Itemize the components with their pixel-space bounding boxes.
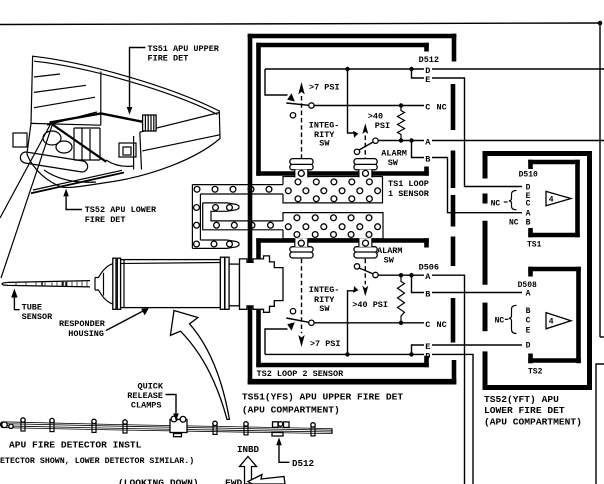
svg-text:TS1 LOOP: TS1 LOOP (388, 179, 429, 189)
responder grill (143, 115, 157, 131)
TS1 box (528, 160, 580, 165)
wire C line loop1 (314, 105, 424, 107)
svg-text:INTEG-: INTEG- (309, 120, 340, 130)
holes band C (214, 222, 220, 228)
responder neck (229, 264, 239, 306)
svg-text:D: D (526, 342, 531, 351)
pressure arrow 40psi loop1 (362, 123, 368, 134)
svg-text:NC: NC (509, 218, 519, 227)
upper fire det element bold line (50, 114, 143, 123)
svg-text:ALARM: ALARM (377, 246, 403, 256)
svg-text:HOUSING: HOUSING (68, 329, 104, 339)
svg-text:SENSOR: SENSOR (22, 312, 54, 322)
TS2 box (528, 267, 581, 272)
wire D506-D down (432, 354, 473, 484)
leader diagonals to responder drawing (0, 122, 52, 218)
wire D506-B to D508-A (432, 292, 522, 294)
TS outer box (483, 151, 592, 156)
svg-text:>7 PSI: >7 PSI (309, 82, 340, 92)
grommet loop2 alarm (354, 238, 377, 258)
grommet loop1 integrity (290, 159, 313, 178)
svg-text:SW: SW (319, 304, 330, 314)
svg-text:RELEASE: RELEASE (127, 391, 163, 401)
alarm switch blade loop1 (373, 138, 378, 143)
holes tube1 (285, 179, 380, 202)
svg-text:C: C (425, 320, 430, 330)
svg-text:TUBE: TUBE (22, 303, 42, 313)
clamps (21, 416, 315, 437)
cone fold line (100, 72, 102, 126)
svg-text:TS52(YFT) APU: TS52(YFT) APU (484, 394, 559, 405)
wire D506-E to D508-D (432, 344, 522, 346)
sensor tube2 wide band (283, 213, 383, 239)
loop box outer left edge (248, 34, 253, 385)
svg-text:1 SENSOR: 1 SENSOR (388, 189, 430, 199)
svg-text:SW: SW (388, 158, 399, 168)
svg-text:CLAMPS: CLAMPS (131, 401, 162, 411)
quick release clamp big (170, 420, 187, 433)
cone outline (27, 56, 220, 187)
wire right vertical (599, 23, 601, 337)
svg-text:NC: NC (437, 103, 447, 113)
svg-text:>40: >40 (368, 111, 383, 121)
svg-text:D510: D510 (519, 171, 538, 180)
svg-text:A: A (425, 138, 431, 148)
tube sensor tapered tube (2, 281, 90, 287)
wire D512-E to D510-D (432, 78, 522, 187)
wire D512-B to D510-A (432, 158, 522, 213)
wire D rail left leg loop2 (265, 329, 288, 354)
svg-text:ALARM: ALARM (381, 148, 407, 158)
wire B jog loop1 (412, 141, 425, 158)
svg-text:D: D (425, 351, 430, 361)
wire E jog loop1 (412, 69, 425, 78)
svg-text:B: B (425, 290, 430, 300)
label D512 pointer (276, 437, 282, 445)
svg-text:E: E (425, 75, 430, 85)
loop1 inner border (256, 43, 261, 176)
element tube lines (2, 422, 332, 434)
sensor inner vertical + band C (203, 203, 283, 230)
loop box outer top edge (248, 34, 457, 39)
svg-text:FIRE DET: FIRE DET (85, 215, 126, 225)
svg-text:A: A (425, 272, 431, 282)
wire A line loop2 (378, 274, 424, 276)
svg-text:D512: D512 (292, 458, 314, 469)
svg-text:>40 PSI: >40 PSI (352, 300, 388, 310)
integrity actuator arrowhead (287, 93, 295, 101)
sensor tube1 wide band (283, 177, 383, 203)
svg-text:SW: SW (319, 139, 330, 149)
holes band B (213, 205, 219, 211)
svg-text:A: A (526, 209, 531, 218)
integrity switch SW blade loop1 (286, 103, 309, 105)
node junction top right (598, 21, 603, 26)
grommet loop1 alarm (354, 159, 377, 178)
svg-text:TS52 APU LOWER: TS52 APU LOWER (85, 205, 157, 215)
sensor band D with nozzle (192, 240, 239, 248)
svg-text:SW: SW (384, 255, 395, 265)
wire lower exit (596, 364, 604, 484)
svg-text:RESPONDER: RESPONDER (59, 319, 106, 329)
svg-text:PSI: PSI (375, 121, 390, 131)
grommet loop2 integrity (290, 238, 313, 258)
lower fire det element line (31, 173, 124, 194)
svg-text:B: B (526, 307, 531, 316)
wire exit right (600, 336, 604, 338)
loop2 inner border (256, 238, 261, 367)
svg-text:FWD: FWD (225, 478, 243, 484)
responder flange left (113, 258, 116, 309)
wire C line loop2 (314, 322, 424, 324)
equipment bay (74, 128, 100, 160)
svg-text:(UPPER DETECTOR SHOWN, LOWER D: (UPPER DETECTOR SHOWN, LOWER DETECTOR SI… (0, 456, 194, 466)
svg-text:(LOOKING DOWN): (LOOKING DOWN) (118, 478, 199, 484)
pressure arrow 7psi loop1 (298, 82, 304, 94)
D508 NC brace (505, 318, 509, 320)
svg-text:INTEG-: INTEG- (309, 285, 340, 295)
svg-text:4: 4 (549, 318, 554, 327)
wire D512-A extension (432, 140, 604, 142)
svg-text:C: C (526, 199, 531, 208)
bold diagonal brace (50, 123, 107, 162)
hatch panel lines (34, 74, 60, 77)
svg-text:APU FIRE DETECTOR INSTL: APU FIRE DETECTOR INSTL (9, 440, 142, 451)
svg-text:TS1: TS1 (527, 241, 542, 250)
svg-text:B: B (526, 218, 531, 227)
svg-text:D512: D512 (419, 55, 439, 65)
alarm actuator loop1 (348, 69, 354, 133)
svg-text:LOWER FIRE DET: LOWER FIRE DET (484, 405, 565, 416)
holes left vertical (194, 205, 200, 211)
svg-text:TS2: TS2 (528, 368, 543, 377)
svg-text:TS2 LOOP 2 SENSOR: TS2 LOOP 2 SENSOR (257, 369, 345, 379)
svg-text:E: E (526, 326, 531, 335)
tube hatch (16, 281, 87, 286)
pressure arrow 40psi loop2 (362, 286, 368, 297)
svg-text:(APU COMPARTMENT): (APU COMPARTMENT) (242, 405, 340, 416)
wire E jog loop2 (412, 345, 425, 354)
wire B jog loop2 (412, 275, 425, 292)
svg-text:TS51(YFS) APU UPPER FIRE DET: TS51(YFS) APU UPPER FIRE DET (242, 391, 403, 402)
svg-text:NC: NC (495, 317, 505, 326)
svg-text:B: B (425, 155, 430, 165)
responder clamp D512 (273, 422, 279, 428)
pressure arrow 7psi loop2 (298, 335, 304, 347)
svg-text:NC: NC (437, 320, 447, 330)
responder castellated block (240, 256, 284, 312)
loop box outer bottom edge (248, 379, 457, 385)
svg-text:INBD: INBD (237, 444, 260, 455)
integrity switch blade loop2 (286, 318, 309, 322)
resistor loop1 (398, 106, 405, 141)
svg-text:FIRE DET: FIRE DET (148, 54, 189, 64)
cone deck line (31, 123, 101, 125)
responder flange right (220, 257, 224, 309)
D510 NC brace (504, 201, 508, 203)
svg-text:C: C (425, 103, 430, 113)
alarm actuator loop2 (348, 291, 354, 355)
wire D rail loop2 (265, 353, 424, 355)
wire D rail loop1 (265, 68, 424, 70)
sensor left vertical band (191, 185, 193, 249)
TS1 amplifier triangle 4 (546, 191, 571, 205)
holes tube2 (285, 215, 380, 238)
sensor tube band A (192, 184, 283, 186)
wire A line loop1 (378, 140, 424, 142)
FWD hollow arrow (248, 475, 285, 484)
svg-text:D506: D506 (419, 262, 439, 272)
cone right face bands (140, 113, 220, 133)
svg-text:>7 PSI: >7 PSI (310, 339, 341, 349)
svg-text:(APU COMPARTMENT): (APU COMPARTMENT) (484, 416, 582, 427)
wire D rail left leg (265, 69, 288, 95)
element left end fittings (2, 422, 8, 428)
responder body (121, 260, 221, 308)
holes band A (194, 186, 200, 192)
resistor loop2 (398, 275, 405, 323)
TS outer box left dashed edge (483, 151, 488, 179)
wire D506-A down (432, 275, 465, 484)
wire D512-D extension (432, 68, 604, 70)
svg-text:4: 4 (549, 196, 554, 205)
svg-text:TS51 APU UPPER: TS51 APU UPPER (148, 44, 220, 54)
svg-text:A: A (526, 290, 531, 299)
INBD hollow arrow (240, 457, 257, 484)
cone inner lip (34, 61, 218, 114)
responder bell (95, 264, 113, 278)
integrity actuator arrowhead loop2 (287, 322, 295, 330)
svg-text:QUICK: QUICK (138, 381, 164, 391)
svg-text:NC: NC (491, 199, 501, 208)
TS2 amplifier triangle 4 (546, 313, 571, 329)
loop box outer right edge dashed connector (452, 34, 457, 62)
holes band D (194, 241, 200, 247)
svg-text:C: C (526, 317, 531, 326)
alarm switch blade loop2 (373, 272, 378, 277)
sensor band B with nozzle (203, 203, 283, 221)
